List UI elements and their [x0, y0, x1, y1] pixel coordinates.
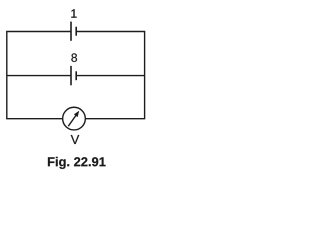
label 1 (value of top cell): [71, 9, 76, 17]
label 8 (value of middle cell): [71, 53, 77, 61]
wire: middle branch left of cell: [7, 75, 71, 77]
label V (voltmeter letter): [71, 135, 80, 144]
wire: top-left segment, left vertical, bottom-left segment: [7, 32, 71, 119]
cell 1 (top branch battery cell): [71, 22, 76, 41]
cell 8 (middle branch battery cell): [71, 66, 76, 85]
wire: top-right segment, right vertical, bottom-right segment: [76, 32, 144, 119]
wire: middle branch right of cell: [76, 75, 144, 77]
caption Fig. 22.91: [48, 157, 106, 169]
voltmeter V (circle with needle): [63, 107, 86, 130]
